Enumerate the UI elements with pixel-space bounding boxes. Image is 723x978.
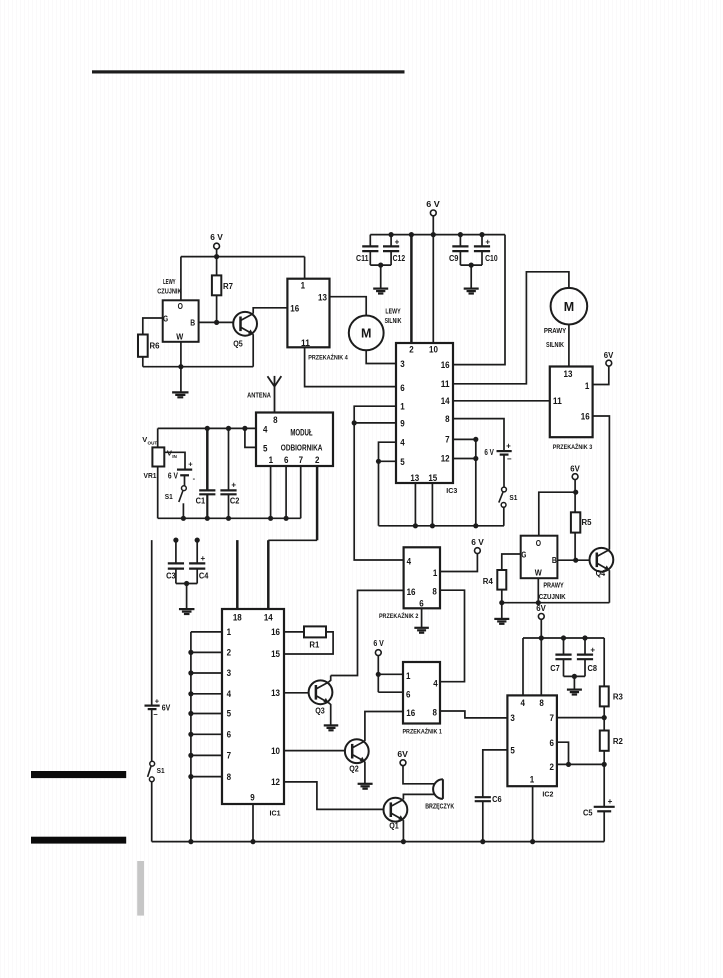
switch S1 middle-left [165, 486, 187, 502]
wire IC1 input bus vertical [190, 632, 192, 842]
svg-text:PRAWY: PRAWY [543, 583, 564, 590]
svg-text:8: 8 [445, 414, 449, 424]
resistor R3 [600, 686, 624, 730]
wire VR1 out to battery [164, 452, 185, 469]
node junction W/rail [178, 364, 183, 369]
resistor R2 [600, 731, 624, 807]
svg-text:8: 8 [273, 415, 277, 425]
switch S1 right [499, 487, 518, 507]
svg-text:G: G [521, 549, 526, 559]
svg-text:6: 6 [549, 738, 553, 748]
wire Q3 emitter to ground [329, 703, 331, 726]
svg-text:6V: 6V [604, 351, 614, 360]
svg-text:8: 8 [227, 772, 231, 782]
black bar 1 bottom-left [31, 771, 126, 778]
svg-text:Q2: Q2 [349, 765, 359, 774]
wire battery to switch S1 right [503, 455, 505, 487]
svg-text:3: 3 [510, 713, 514, 723]
wire bus right end to IC3 pin16 [453, 235, 505, 365]
wire C9/C10 common [460, 264, 482, 266]
svg-text:6V: 6V [397, 750, 408, 759]
svg-text:M: M [361, 327, 371, 341]
wire module pin1 down [270, 466, 272, 518]
relay PRZEKAZNIK 1 box [402, 662, 442, 736]
battery 6V middle-left [168, 459, 196, 483]
ground Q3 [324, 724, 339, 726]
receiver module MODUL ODBIORNIKA box [256, 413, 333, 467]
svg-text:14: 14 [264, 613, 273, 623]
wire battery to S1 bottom-left [151, 709, 153, 761]
node junction B [214, 320, 219, 325]
wire relay4 pin13 to left motor [330, 297, 367, 316]
power terminal 6V top-left [210, 233, 223, 249]
wire IC2 pin5 to C6 [483, 750, 508, 797]
node junction IC2 pin1/rail [530, 839, 535, 844]
svg-text:1: 1 [433, 568, 437, 578]
svg-text:6V: 6V [570, 465, 580, 474]
svg-text:9: 9 [250, 793, 254, 803]
svg-text:15: 15 [271, 649, 280, 659]
svg-text:16: 16 [441, 360, 450, 370]
svg-text:10: 10 [271, 746, 280, 756]
capacitor C4 [189, 538, 209, 584]
wire relay2 pin16 to Q3 collector [331, 590, 404, 675]
IC IC3 box [396, 343, 457, 495]
svg-text:-: - [193, 474, 196, 483]
svg-text:C5: C5 [583, 808, 593, 817]
svg-text:CZUJNIK: CZUJNIK [539, 594, 566, 601]
wire relay3 pin16 down right side [593, 416, 610, 550]
wire IC3 pin13 down [414, 483, 416, 526]
svg-text:W: W [176, 331, 184, 341]
wire C7/C8 common [564, 675, 586, 677]
wire sensor G to R4 [502, 554, 521, 570]
capacitor C10 [474, 232, 498, 265]
gray scan bar bottom-left [137, 861, 144, 916]
svg-text:1: 1 [227, 627, 231, 637]
svg-text:6 V: 6 V [484, 448, 494, 457]
svg-text:6 V: 6 V [373, 639, 384, 648]
svg-text:+: + [506, 442, 511, 451]
svg-text:4: 4 [520, 698, 524, 708]
wire module supply bus [158, 427, 256, 429]
wire long left rail [151, 540, 153, 705]
wire 6V stub [432, 216, 434, 235]
wire Q5 collector to relay4 pin16 [253, 308, 287, 314]
node junction pin2/R2 [602, 762, 607, 767]
svg-text:13: 13 [564, 369, 573, 379]
relay PRZEKAZNIK 4 box [287, 279, 348, 362]
svg-text:16: 16 [407, 587, 416, 597]
power terminal 6V relay3 [604, 351, 614, 366]
svg-text:Q3: Q3 [315, 707, 325, 716]
svg-text:+: + [188, 459, 193, 468]
wire Q4 emitter to rail [608, 570, 610, 603]
svg-text:PRZEKAŹNIK 4: PRZEKAŹNIK 4 [308, 353, 348, 362]
svg-text:7: 7 [445, 435, 449, 445]
wire IC2 pin7 to R3/R2 node [557, 717, 604, 719]
top horizontal rule [92, 70, 405, 73]
wire Q1 emitter to rail [402, 820, 404, 842]
svg-text:14: 14 [441, 396, 450, 406]
node junction bus/ground rail [188, 839, 193, 844]
capacitor C9 [449, 232, 469, 265]
power terminal 6V buzzer [397, 750, 408, 765]
wire IC3 pin8 to battery [453, 419, 504, 452]
transistor Q3 [309, 680, 333, 715]
svg-text:MODUŁ: MODUŁ [290, 428, 313, 438]
wire module pin7 down [300, 466, 302, 518]
power terminal 6V relay2 [471, 538, 484, 553]
wire Q2 collector to relay1 pin16 [365, 712, 403, 742]
ground C9/C10 [464, 288, 479, 290]
wire R6 to bottom rail [142, 357, 144, 367]
node junction C6/rail [480, 839, 485, 844]
wire to ground C11/C12 [380, 265, 382, 289]
motor PRAWY SILNIK [544, 288, 587, 349]
node junction C7/C8 [572, 674, 577, 679]
svg-text:5: 5 [227, 709, 231, 719]
sensor PRAWY CZUJNIK box [521, 536, 566, 601]
capacitor C1 [196, 426, 216, 521]
svg-text:2: 2 [315, 455, 319, 465]
svg-text:13: 13 [271, 688, 280, 698]
wire S1 to ground rail [151, 782, 153, 842]
wire IC1 pin10 to Q2 [284, 750, 345, 752]
svg-text:R4: R4 [483, 577, 494, 586]
wire module pin6 down [285, 466, 287, 518]
svg-text:7: 7 [227, 751, 231, 761]
svg-text:C1: C1 [196, 497, 206, 506]
svg-text:PRZEKAŹNIK 3: PRZEKAŹNIK 3 [553, 442, 593, 451]
node junction pin5 [376, 459, 381, 464]
wire sensor W down [537, 578, 539, 603]
wire sensor W down to ground [180, 342, 182, 392]
svg-text:11: 11 [553, 396, 562, 406]
svg-text:6: 6 [406, 689, 410, 699]
node junction R4/rail [499, 600, 504, 605]
wire IC1 pin12 to Q1 base [284, 782, 384, 810]
wire right motor to relay3 pin13 [568, 324, 570, 367]
svg-text:6: 6 [227, 730, 231, 740]
svg-text:18: 18 [233, 613, 242, 623]
wire bus left to IC2 pin4 [522, 638, 524, 695]
node junction B/R5 [573, 558, 578, 563]
capacitor C11 [356, 235, 378, 266]
sensor LEWY CZUJNIK box [157, 279, 198, 342]
wire IC1 pin8 stub [191, 776, 222, 778]
wire 6V stub to bus [216, 249, 218, 257]
wire IC3 pin7 [453, 438, 476, 440]
node junction pin15/rail [430, 523, 435, 528]
svg-text:S1: S1 [165, 492, 173, 501]
resistor R4 [483, 570, 507, 619]
ground Q2 [358, 783, 373, 785]
svg-text:+: + [231, 481, 236, 490]
buzzer BRZECZYK [425, 779, 455, 810]
wire Q3 collector up [329, 676, 331, 683]
node junction 6V/R7 [214, 254, 219, 259]
svg-text:R5: R5 [582, 518, 593, 527]
antenna ANTENA [247, 376, 281, 413]
node junction bus/IC3 pin2 [409, 232, 414, 237]
svg-text:+: + [590, 646, 595, 655]
node junction Q1/rail [401, 839, 406, 844]
svg-text:IC2: IC2 [542, 790, 553, 799]
wire relay4 pin11 to IC3 pin6 [305, 347, 396, 386]
ground R4 [494, 618, 509, 620]
svg-text:LEWY: LEWY [163, 279, 176, 286]
svg-text:PRZEKAŹNIK 2: PRZEKAŹNIK 2 [379, 611, 419, 620]
svg-text:C11: C11 [356, 254, 369, 263]
svg-text:C6: C6 [492, 795, 502, 804]
node junction pin9 [352, 420, 357, 425]
relay PRZEKAZNIK 3 box [550, 367, 593, 452]
svg-text:R1: R1 [309, 641, 320, 650]
capacitor C8 [577, 635, 598, 676]
power terminal 6V top-center [426, 200, 440, 216]
capacitor C5 [583, 797, 615, 842]
node junction bus/6V [431, 232, 436, 237]
svg-text:6V: 6V [162, 703, 171, 712]
svg-text:1: 1 [406, 671, 410, 681]
wire IC1 pin13 to Q3 [284, 692, 309, 694]
svg-text:+: + [485, 238, 490, 247]
wire module supply rail [158, 517, 301, 519]
svg-text:C4: C4 [199, 571, 209, 580]
wire Q5 emitter to rail [252, 334, 254, 367]
svg-text:3: 3 [400, 359, 404, 369]
capacitor C2 [220, 426, 239, 521]
svg-text:Q5: Q5 [233, 340, 243, 349]
svg-text:4: 4 [433, 678, 437, 688]
svg-text:−: − [507, 455, 512, 464]
svg-text:ANTENA: ANTENA [247, 390, 271, 399]
svg-text:4: 4 [263, 424, 267, 434]
svg-text:C2: C2 [230, 497, 240, 506]
wire top-left 6V bus [181, 256, 305, 258]
svg-text:SILNIK: SILNIK [385, 318, 402, 325]
svg-text:6: 6 [419, 599, 423, 609]
wire IC1 pin4 stub [191, 693, 222, 695]
node junction pin6/rail [284, 516, 289, 521]
wire bus down to sensor O pin [180, 257, 182, 301]
svg-text:C8: C8 [588, 664, 598, 673]
node junction pin7/R3 [602, 715, 607, 720]
node junction pin12 [473, 456, 478, 461]
wire module pin2 to IC1 pin14 [268, 466, 317, 609]
svg-text:B: B [552, 555, 557, 565]
svg-text:11: 11 [301, 338, 310, 348]
wire IC3 pin9 [354, 422, 396, 424]
wire to ground C9/C10 [470, 265, 472, 289]
node junction C3/C4 [184, 581, 189, 586]
svg-text:6 V: 6 V [471, 538, 484, 547]
wire buzzer bottom to Q1 collector [403, 794, 434, 799]
wire bottom ground rail [152, 841, 605, 843]
wire 6V to buzzer top [403, 766, 435, 784]
wire 6V to junction [574, 480, 576, 513]
svg-text:1: 1 [301, 281, 305, 291]
svg-text:R3: R3 [613, 693, 624, 702]
wire IC3 pin12 [453, 458, 476, 460]
node junction pin7 [473, 437, 478, 442]
transistor Q4 [590, 548, 614, 578]
wire C11/C12 common [370, 264, 391, 266]
svg-text:8: 8 [432, 587, 436, 597]
svg-text:4: 4 [227, 689, 231, 699]
wire relay2 pin8 to relay1 pin4 [440, 590, 465, 682]
svg-text:LEWY: LEWY [385, 309, 400, 316]
svg-text:5: 5 [400, 457, 404, 467]
wire 6V to relay1 pins 1 and 6 [376, 656, 403, 693]
resistor R5 [571, 512, 592, 560]
power terminal 6V IC2 [536, 604, 546, 619]
svg-text:R7: R7 [223, 282, 234, 291]
svg-text:IC3: IC3 [446, 486, 457, 495]
wire IC1 pin6 stub [191, 733, 222, 735]
svg-text:6V: 6V [536, 604, 546, 613]
svg-text:1: 1 [400, 401, 404, 411]
svg-text:Q4: Q4 [596, 569, 606, 578]
battery 6V bottom-left [145, 696, 171, 719]
svg-text:C10: C10 [485, 254, 498, 263]
node junction S1/rail [181, 516, 186, 521]
wire relay2 pin6 to ground [421, 608, 423, 628]
svg-text:R2: R2 [613, 737, 624, 746]
capacitor C12 [383, 232, 406, 265]
svg-text:13: 13 [318, 292, 327, 302]
wire Q2 emitter to ground [364, 762, 366, 784]
wire relay3 pin1 to 6V [593, 366, 609, 385]
wire bus right to R3 [603, 638, 605, 686]
svg-text:B: B [190, 318, 195, 328]
wire IC1 pin7 stub [191, 754, 222, 756]
wire bus to IC3 pin2 [410, 235, 413, 343]
svg-text:7: 7 [549, 713, 553, 723]
wire IC1 pin3 stub [191, 672, 222, 674]
power terminal 6V right sensor [570, 465, 580, 480]
wire IC1 pin5 stub [191, 713, 222, 715]
node junction 6V/bus [539, 635, 544, 640]
svg-text:4: 4 [407, 557, 411, 567]
wire bus down to relay4 pin 1 [304, 257, 306, 279]
svg-text:9: 9 [400, 419, 404, 429]
wire sensor B to Q4 [557, 559, 589, 561]
svg-text:−: − [153, 710, 158, 719]
wire IC3 bottom rail [379, 525, 505, 527]
svg-text:11: 11 [441, 379, 450, 389]
svg-text:16: 16 [290, 304, 299, 314]
resistor R6 [138, 335, 160, 357]
ground C7/C8 [567, 688, 582, 690]
svg-text:+: + [155, 696, 160, 705]
node junction pin5 branch [242, 426, 247, 431]
wire 6V down to IC2 pin8 [540, 619, 542, 695]
svg-text:ODBIORNIKA: ODBIORNIKA [281, 444, 323, 453]
svg-text:3: 3 [227, 668, 231, 678]
wire IC3 pin1 to relay2 pin4 [354, 406, 403, 560]
wire IC1 pin9 down [252, 804, 254, 842]
svg-text:SILNIK: SILNIK [546, 342, 564, 349]
svg-text:2: 2 [549, 762, 553, 772]
wire bus to VR1 [157, 428, 159, 447]
svg-text:V: V [142, 435, 147, 444]
node junction C9/C10 [469, 263, 474, 268]
svg-text:12: 12 [271, 777, 280, 787]
svg-text:Q1: Q1 [389, 822, 399, 831]
svg-text:6 V: 6 V [210, 233, 223, 242]
svg-text:1: 1 [269, 455, 273, 465]
node junction pin1/rail [268, 516, 273, 521]
transistor Q5 [233, 312, 257, 349]
wire relay1 pin8 to IC2 pin3 [440, 711, 507, 718]
ground C3/C4 [179, 608, 195, 610]
power terminal 6V relay1 [373, 639, 384, 655]
IC IC1 box [222, 609, 284, 817]
svg-text:2: 2 [409, 344, 413, 354]
svg-text:7: 7 [299, 455, 303, 465]
wire IC3 pin14 to relay3 pin11 [453, 400, 550, 402]
wire sensor G to R6 [143, 318, 163, 335]
wire IC3 pin15 down [431, 483, 433, 526]
svg-text:+: + [200, 554, 205, 563]
wire IC3 pin4 loop [379, 442, 397, 526]
svg-text:O: O [536, 538, 542, 548]
wire bus to IC3 pin10 [432, 235, 434, 343]
node junction C11/C12 [378, 263, 383, 268]
svg-text:+: + [395, 238, 400, 247]
svg-text:6 V: 6 V [426, 200, 440, 209]
wire to ground C3/C4 [186, 584, 188, 610]
svg-text:VR1: VR1 [144, 471, 157, 480]
transistor Q1 [384, 798, 408, 831]
resistor R1 feedback [284, 626, 333, 654]
svg-text:PRZEKAŹNIK 1: PRZEKAŹNIK 1 [402, 727, 442, 736]
wire IC2 pin2 to R2 node [557, 763, 604, 765]
svg-text:2: 2 [227, 648, 231, 658]
wire IC2 pin1 down [532, 786, 534, 841]
svg-text:6: 6 [284, 455, 288, 465]
IC IC2 box [507, 695, 557, 798]
node junction rail/vertical [473, 523, 478, 528]
wire VR1 down to rail [157, 467, 159, 519]
wire switch to IC3 rail [503, 507, 505, 526]
capacitor C6 [475, 795, 502, 841]
wire left sensor bottom rail [143, 366, 253, 368]
relay PRZEKAZNIK 2 box [379, 547, 440, 620]
svg-text:1: 1 [530, 775, 534, 785]
svg-text:OUT: OUT [148, 440, 158, 445]
wire pin7/pin12 down to rail [475, 439, 477, 525]
wire battery to S1 [184, 475, 186, 486]
wire right sensor rail [502, 602, 610, 604]
wire relay2 pin1 to 6V [440, 554, 477, 572]
svg-text:C7: C7 [550, 664, 560, 673]
node junction W/rail right [536, 600, 541, 605]
svg-text:15: 15 [428, 473, 437, 483]
svg-text:16: 16 [581, 411, 590, 421]
svg-text:IC1: IC1 [270, 808, 281, 817]
svg-text:C12: C12 [393, 254, 406, 263]
switch S1 bottom-left [148, 761, 165, 781]
wire junction to sensor O [539, 492, 576, 536]
svg-text:C3: C3 [166, 571, 176, 580]
svg-text:13: 13 [410, 473, 419, 483]
wire to ground C7/C8 [573, 676, 575, 689]
svg-text:PRAWY: PRAWY [544, 328, 567, 335]
resistor R7 [212, 257, 234, 323]
